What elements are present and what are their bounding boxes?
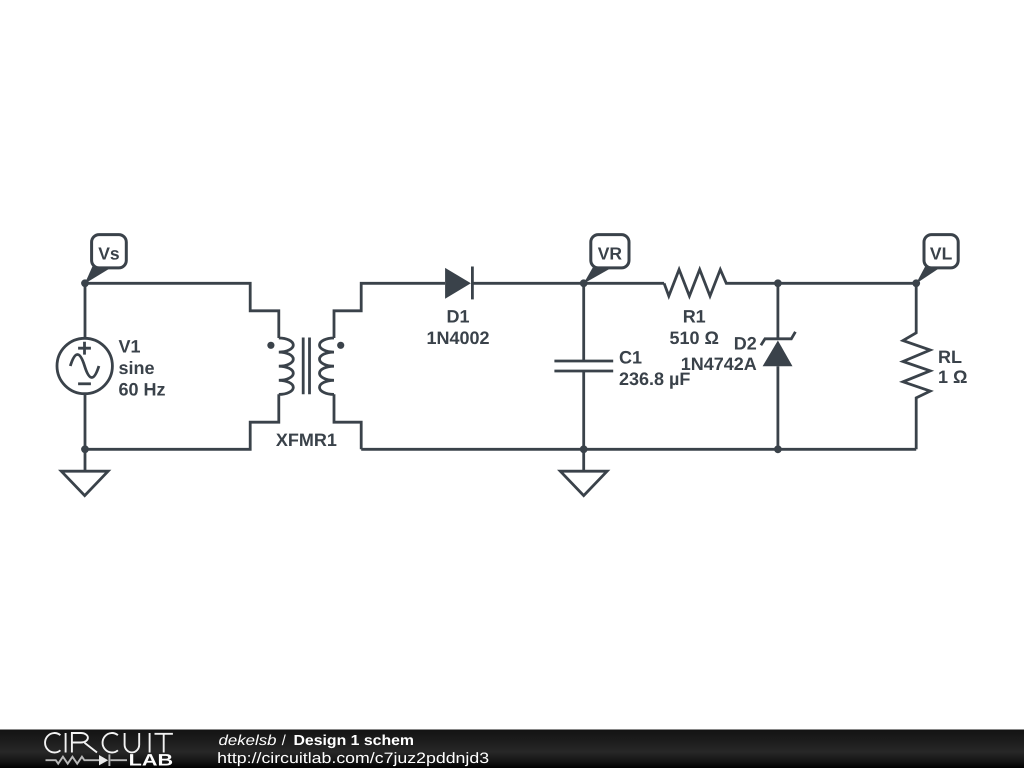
- svg-text:1 Ω: 1 Ω: [938, 367, 967, 387]
- svg-text:VL: VL: [930, 244, 953, 264]
- svg-text:dekelsb: dekelsb: [219, 733, 277, 749]
- svg-text:XFMR1: XFMR1: [276, 430, 337, 450]
- svg-text:R1: R1: [683, 306, 706, 326]
- svg-text:sine: sine: [119, 358, 155, 378]
- svg-text:1N4002: 1N4002: [426, 328, 489, 348]
- svg-text:http://circuitlab.com/c7juz2pd: http://circuitlab.com/c7juz2pddnjd3: [217, 750, 489, 767]
- svg-text:D1: D1: [446, 306, 469, 326]
- svg-text:Design 1 schem: Design 1 schem: [294, 733, 415, 749]
- svg-text:D2: D2: [734, 333, 757, 353]
- svg-text:236.8 µF: 236.8 µF: [619, 369, 690, 389]
- svg-text:Vs: Vs: [98, 244, 120, 264]
- svg-text:VR: VR: [598, 244, 623, 264]
- svg-text:RL: RL: [938, 347, 962, 367]
- svg-text:510 Ω: 510 Ω: [669, 328, 718, 348]
- svg-text:LAB: LAB: [129, 752, 174, 768]
- svg-text:C1: C1: [619, 347, 642, 367]
- svg-text:60 Hz: 60 Hz: [119, 380, 166, 400]
- svg-text:1N4742A: 1N4742A: [681, 354, 757, 374]
- svg-text:V1: V1: [119, 336, 141, 356]
